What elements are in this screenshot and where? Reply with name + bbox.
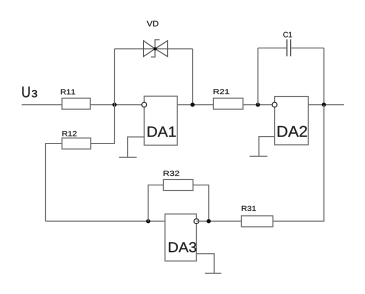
wire C1 feedback top-left segment xyxy=(258,47,287,49)
wire R32 feedback left vertical xyxy=(148,185,163,221)
wire R12 right side up to node A xyxy=(91,105,115,144)
wire R32 feedback right vertical down to node E xyxy=(193,185,209,221)
resistor R12 xyxy=(62,131,91,149)
wire R11 to DA1 inverting input xyxy=(90,104,144,106)
wire R12 left side down the left rail xyxy=(46,144,63,222)
ground (DA3) xyxy=(205,272,221,274)
op-amp DA1 xyxy=(142,96,177,145)
node E junction (DA3 input node) xyxy=(207,219,211,223)
wire input stub from Uз to R11 xyxy=(22,104,62,106)
node A junction (DA1 input node) xyxy=(112,103,116,107)
diode VD bidirectional zener xyxy=(144,21,168,57)
wire DA2 output to node D and output stub xyxy=(308,104,344,106)
node B junction (DA1 output) xyxy=(191,103,195,107)
op-amp DA3 xyxy=(165,214,199,261)
wire DA3 input from R31 xyxy=(196,220,241,222)
wire R21 to DA2 inverting input xyxy=(243,104,275,106)
wire C1 feedback left vertical from node C xyxy=(257,48,259,105)
wire VD feedback left vertical from node A xyxy=(114,49,116,105)
wire DA2 non-inverting input to ground xyxy=(259,137,275,157)
wire DA3 non-inverting input to ground xyxy=(196,254,214,274)
node F junction (DA3 output node) xyxy=(146,219,150,223)
node Uз input label xyxy=(22,87,37,98)
ground (DA2) xyxy=(250,155,268,157)
op-amp DA2 xyxy=(272,97,308,145)
wire R31 to node D vertical rail xyxy=(273,105,324,222)
resistor R21 xyxy=(213,89,243,109)
wire DA1 non-inverting input to ground xyxy=(128,137,145,157)
wire bottom rail to DA3 output xyxy=(46,220,166,222)
node C junction (DA2 input node) xyxy=(256,103,260,107)
wire VD feedback top segment through VD xyxy=(115,48,193,50)
wire C1 feedback right vertical down to node D xyxy=(323,48,325,105)
capacitor C1 xyxy=(283,32,292,56)
wire DA1 output to R21 xyxy=(177,104,213,106)
wire VD feedback right vertical down to node B xyxy=(192,49,194,105)
resistor R31 xyxy=(241,206,273,227)
node D junction (DA2 output) xyxy=(322,103,326,107)
ground (DA1) xyxy=(119,156,137,158)
resistor R11 xyxy=(61,89,90,109)
wire C1 feedback top-right segment xyxy=(291,47,324,49)
resistor R32 xyxy=(163,171,193,191)
